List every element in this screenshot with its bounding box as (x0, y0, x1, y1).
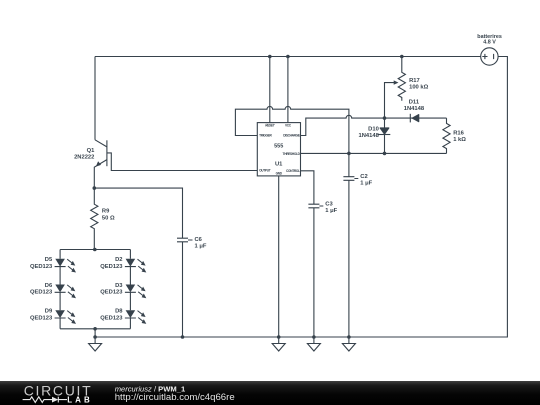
svg-text:THRESHOLD: THRESHOLD (283, 152, 301, 156)
svg-text:QED123: QED123 (100, 290, 123, 296)
svg-text:QED123: QED123 (100, 315, 123, 321)
svg-text:D11: D11 (409, 99, 420, 105)
svg-text:OUTPUT: OUTPUT (259, 168, 271, 172)
svg-text:D2: D2 (115, 257, 122, 263)
svg-text:http://circuitlab.com/c4q66re: http://circuitlab.com/c4q66re (115, 392, 235, 403)
svg-text:D10: D10 (368, 127, 379, 133)
svg-text:R9: R9 (102, 209, 110, 215)
svg-text:TRIGGER: TRIGGER (259, 134, 272, 138)
svg-text:R16: R16 (453, 131, 464, 137)
svg-text:1N4148: 1N4148 (358, 133, 379, 139)
svg-text:1 kΩ: 1 kΩ (453, 137, 466, 143)
svg-text:U1: U1 (275, 162, 283, 168)
svg-text:GND: GND (276, 171, 283, 175)
svg-text:50 Ω: 50 Ω (102, 215, 115, 221)
svg-text:LAB: LAB (67, 395, 92, 404)
svg-text:QED123: QED123 (30, 264, 53, 270)
svg-text:QED123: QED123 (30, 315, 53, 321)
svg-text:CONTROL: CONTROL (286, 169, 300, 173)
svg-text:1 μF: 1 μF (360, 180, 372, 186)
svg-text:1N4148: 1N4148 (404, 106, 425, 112)
svg-text:1 μF: 1 μF (325, 208, 337, 214)
svg-text:VCC: VCC (285, 123, 292, 127)
svg-text:555: 555 (274, 144, 283, 150)
svg-text:QED123: QED123 (30, 290, 53, 296)
svg-text:2N2222: 2N2222 (74, 154, 94, 160)
svg-text:D9: D9 (45, 309, 53, 315)
svg-text:D8: D8 (115, 309, 123, 315)
svg-text:D6: D6 (45, 283, 53, 289)
svg-text:100 kΩ: 100 kΩ (409, 84, 429, 90)
svg-text:RESET: RESET (265, 123, 275, 127)
svg-text:1 μF: 1 μF (195, 244, 207, 250)
svg-text:C3: C3 (325, 201, 333, 207)
svg-text:R17: R17 (409, 78, 420, 84)
svg-text:QED123: QED123 (100, 264, 123, 270)
svg-text:Q1: Q1 (87, 148, 96, 154)
svg-text:DISCHARGE: DISCHARGE (283, 134, 300, 138)
svg-text:D5: D5 (45, 257, 53, 263)
svg-text:D3: D3 (115, 283, 123, 289)
svg-text:C6: C6 (195, 237, 203, 243)
svg-text:C2: C2 (360, 174, 367, 180)
svg-text:4.8 V: 4.8 V (483, 40, 496, 46)
